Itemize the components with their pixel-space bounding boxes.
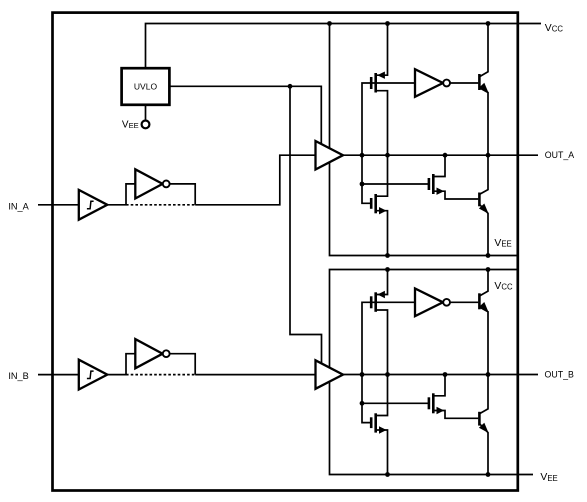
- svg-text:VEE: VEE: [122, 119, 139, 130]
- svg-text:OUT_B: OUT_B: [545, 370, 574, 380]
- svg-text:IN_A: IN_A: [8, 201, 29, 211]
- svg-text:VCC: VCC: [494, 281, 513, 292]
- svg-text:VEE: VEE: [494, 238, 511, 249]
- svg-text:OUT_A: OUT_A: [545, 150, 574, 160]
- svg-text:UVLO: UVLO: [134, 81, 158, 91]
- svg-text:VCC: VCC: [545, 23, 564, 34]
- svg-text:VEE: VEE: [540, 472, 557, 483]
- svg-text:IN_B: IN_B: [8, 371, 28, 381]
